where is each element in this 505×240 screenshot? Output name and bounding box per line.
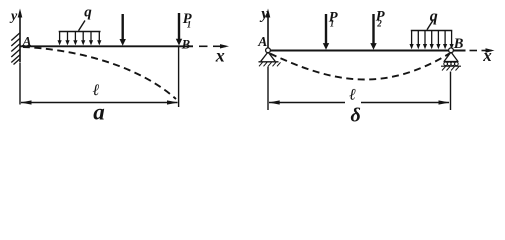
distributed load arrows (a) [58, 32, 102, 45]
svg-text:δ: δ [351, 104, 361, 126]
y-axis (a) [18, 9, 23, 63]
force P1 arrow (a) [176, 13, 182, 46]
svg-text:B: B [453, 36, 464, 52]
svg-text:а: а [93, 99, 105, 124]
svg-text:q: q [430, 8, 438, 25]
svg-text:x: x [482, 46, 492, 65]
dimension line l (a) [21, 100, 179, 104]
svg-text:B: B [181, 37, 190, 51]
force P1 arrow (b) [323, 14, 329, 50]
beam AB (b) [268, 50, 466, 52]
svg-text:2: 2 [376, 19, 382, 29]
x-axis dash (a) [199, 45, 208, 47]
distributed load q bar (a) [59, 31, 101, 33]
distributed load q bar (b) [411, 30, 453, 32]
dimension line l (b) [269, 100, 450, 104]
svg-text:A: A [257, 34, 267, 49]
deflection curve (a) [23, 47, 176, 99]
svg-text:y: y [9, 9, 18, 24]
beam AB (a) [20, 45, 193, 47]
svg-text:x: x [215, 45, 225, 65]
roller support B (b) [441, 48, 461, 71]
right extension line (b) [450, 72, 452, 111]
q leader line (b) [427, 20, 434, 30]
svg-text:y: y [259, 6, 269, 23]
svg-text:ℓ: ℓ [348, 87, 356, 104]
pin support A (b) [259, 48, 281, 66]
left extension line (b) [267, 67, 269, 111]
concentrated force arrow (a) [120, 14, 126, 46]
left extension line (a) [19, 63, 21, 105]
force P2 arrow (b) [370, 14, 376, 50]
x-axis dash (b) [470, 50, 478, 52]
svg-text:q: q [84, 4, 92, 20]
svg-text:1: 1 [187, 20, 192, 30]
y-axis (b) [266, 9, 271, 51]
svg-text:ℓ: ℓ [92, 82, 100, 99]
distributed load arrows (b) [410, 31, 454, 49]
fixed wall hatching (a) [11, 33, 19, 65]
svg-text:1: 1 [330, 19, 335, 29]
x-axis arrow (b) [482, 48, 495, 52]
right extension line (a) [178, 47, 180, 107]
x-axis arrow (a) [213, 44, 229, 48]
deflection curve (b) [270, 54, 450, 80]
q leader line (a) [79, 21, 86, 31]
